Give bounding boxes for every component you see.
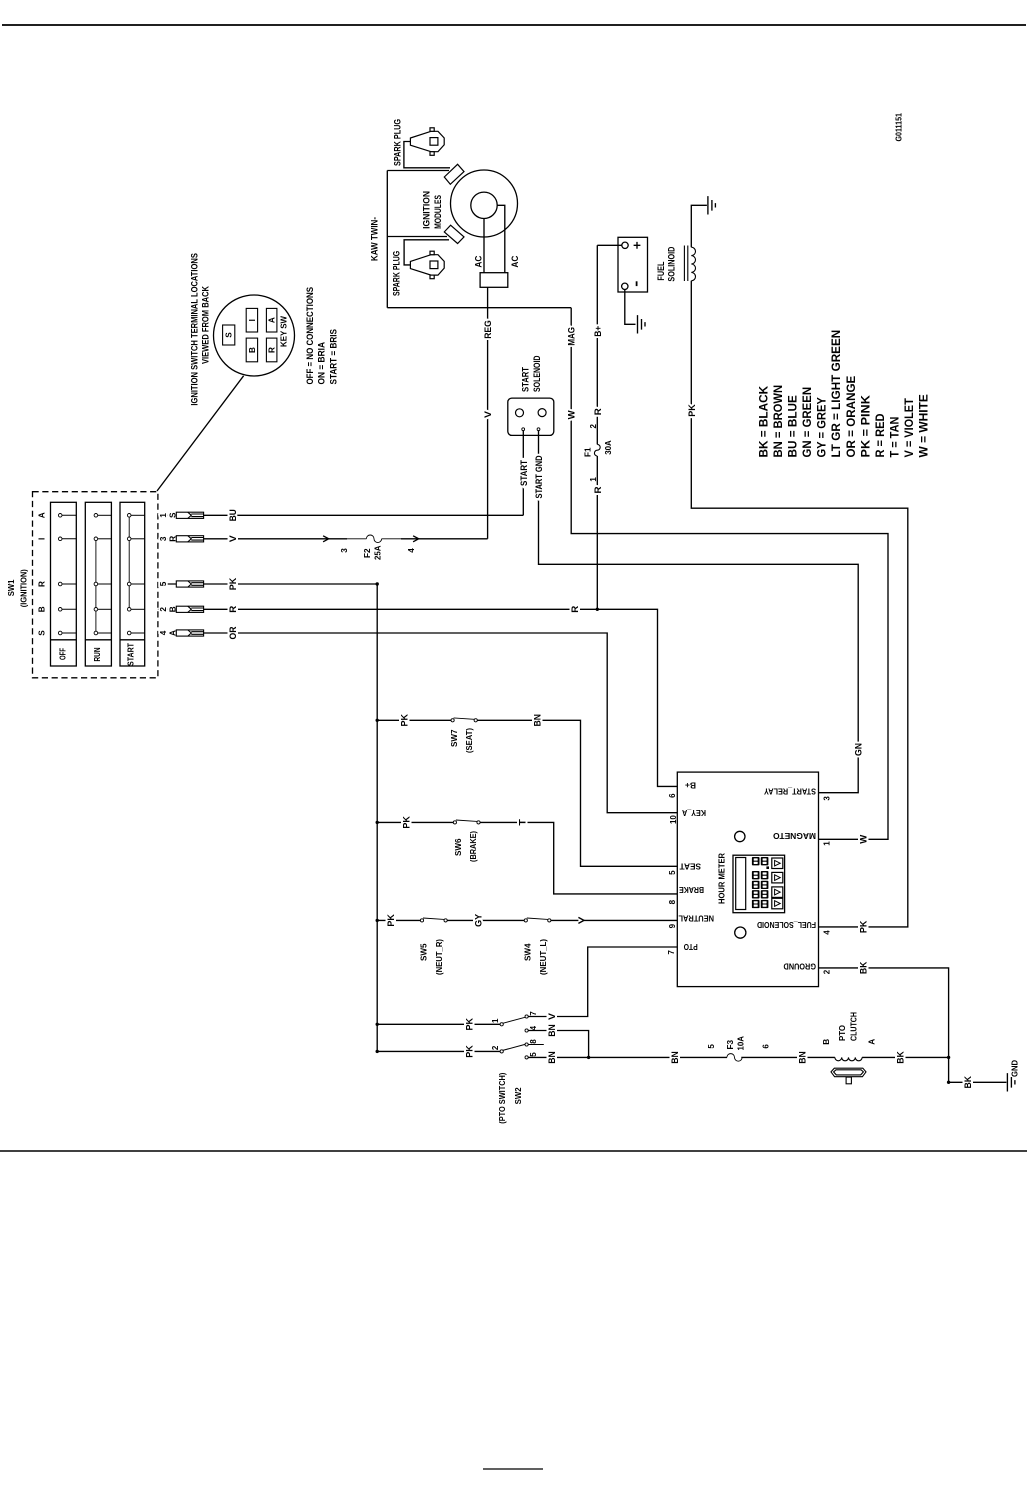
wire GY between neutral switches: [447, 919, 524, 921]
svg-text:(NEUT_L): (NEUT_L): [539, 939, 548, 975]
wire R key B to junction and module B+ pin 6: [158, 609, 677, 786]
spade connector row y=515.3: [176, 512, 203, 518]
svg-text:AC: AC: [474, 255, 484, 267]
fuel solenoid core lines: [684, 246, 687, 282]
switch SW4 NEUT_L: [524, 919, 527, 922]
svg-text:8: 8: [529, 1039, 538, 1044]
flywheel inner circle: [471, 192, 497, 218]
svg-text:PTO: PTO: [683, 942, 698, 951]
svg-text:S: S: [38, 630, 47, 636]
svg-text:V: V: [483, 410, 493, 418]
wire T brake switch to module BRAKE pin 8: [480, 822, 677, 894]
svg-text:PK: PK: [687, 404, 697, 417]
wire BK module GROUND pin 2 to chassis ground: [819, 968, 1007, 1082]
spade connector row y=609.3: [176, 606, 203, 612]
svg-text:1: 1: [159, 513, 168, 518]
svg-text:IGNITION: IGNITION: [422, 191, 432, 229]
spark plug 2 wire: [404, 240, 449, 265]
SW2 pin5 contact: [525, 1056, 528, 1059]
SW1 contact circles column x=129.2: [127, 514, 131, 518]
svg-text:BRAKE: BRAKE: [679, 885, 704, 894]
SW1 RUN position connection bar: [95, 539, 97, 633]
SW1 dashed boundary box: [33, 492, 158, 678]
chassis ground symbol: [1007, 1073, 1015, 1091]
wire BN seat switch to module SEAT pin 5: [477, 720, 677, 866]
key switch terminal I box: [246, 308, 257, 332]
svg-text:R: R: [593, 486, 603, 493]
fuel solenoid coil arcs: [691, 247, 695, 281]
wire MAG W from engine to module pin 1 (magneto): [571, 308, 888, 840]
start solenoid terminal START: [522, 428, 525, 431]
svg-text:PK: PK: [464, 1018, 474, 1031]
svg-text:4: 4: [529, 1025, 538, 1030]
svg-text:PK: PK: [858, 920, 868, 933]
wire START GND green to module pin 3: [539, 431, 859, 793]
svg-text:SW7: SW7: [450, 729, 459, 747]
switch SW6 BRAKE: [453, 821, 456, 824]
junction dot PTO row 2 (bus end): [376, 1050, 379, 1053]
svg-text:R: R: [593, 408, 603, 415]
key switch pointer line: [157, 376, 244, 491]
SW1 contact circles column x=60.2: [58, 514, 62, 518]
svg-text:(PTO SWITCH): (PTO SWITCH): [498, 1072, 507, 1123]
svg-text:W: W: [858, 834, 868, 843]
svg-text:ON = BRIA: ON = BRIA: [317, 342, 327, 385]
control module box: [677, 772, 818, 987]
svg-text:(SEAT): (SEAT): [465, 728, 474, 753]
svg-text:10: 10: [669, 815, 678, 824]
wire BN SW2 pin5 to PTO clutch and ground node (gaps at F3 and clutch coil): [528, 1056, 727, 1058]
engine block top edge wire to ignition module 1: [387, 170, 449, 172]
svg-text:BN: BN: [670, 1051, 680, 1064]
engine block bottom edge: [387, 307, 571, 309]
wire BN SW2 pin4 to BN node: [528, 1031, 588, 1058]
wire START terminal to BU row: [522, 431, 524, 516]
svg-text:BK: BK: [963, 1076, 973, 1089]
svg-text:SOLENOID: SOLENOID: [532, 356, 542, 393]
wire BU key S to start solenoid START: [158, 514, 523, 516]
svg-text:VIEWED FROM BACK: VIEWED FROM BACK: [201, 286, 211, 364]
hour meter digits: [752, 857, 768, 908]
wire R from battery down to junction (gap at fuse F1): [596, 245, 598, 444]
svg-text:2: 2: [822, 969, 831, 974]
svg-text:CLUTCH: CLUTCH: [849, 1012, 858, 1041]
svg-text:HOUR METER: HOUR METER: [717, 852, 727, 904]
svg-text:(BRAKE): (BRAKE): [469, 831, 478, 862]
svg-text:G011151: G011151: [895, 113, 904, 142]
svg-text:3: 3: [159, 536, 168, 541]
svg-text:PK = PINK: PK = PINK: [860, 394, 872, 457]
svg-text:KEY_A: KEY_A: [682, 808, 706, 817]
svg-text:T = TAN: T = TAN: [890, 417, 902, 458]
svg-text:PK: PK: [464, 1045, 474, 1058]
battery ground symbol: [638, 315, 646, 333]
regulator rectifier box: [480, 273, 508, 288]
wire PK to SW2 pin 1: [377, 1023, 500, 1025]
svg-text:PK: PK: [386, 914, 396, 927]
svg-text:SW1: SW1: [7, 579, 16, 596]
SW1 RUN column divider: [85, 639, 111, 641]
ignition module connector 2 (rotated rect): [444, 225, 464, 243]
svg-text:OR: OR: [228, 626, 238, 639]
junction dot BK/BN node: [947, 1056, 950, 1059]
svg-text:MAG: MAG: [567, 327, 577, 346]
svg-text:KAW TWIN-: KAW TWIN-: [370, 217, 380, 261]
svg-text:START: START: [126, 642, 136, 666]
svg-text:BU = BLUE: BU = BLUE: [788, 395, 800, 458]
wire fuel solenoid to ground: [691, 205, 707, 247]
svg-text:2: 2: [491, 1045, 500, 1050]
SW1 RUN column box: [85, 502, 111, 666]
SW1 START column divider: [120, 639, 145, 641]
ignition module connector 1 (rotated rect): [444, 164, 464, 184]
hour meter buttons: [772, 858, 783, 909]
svg-text:10A: 10A: [736, 1036, 745, 1051]
svg-text:F1: F1: [584, 447, 593, 457]
battery box: [618, 237, 648, 292]
PTO clutch rotor symbol: [831, 1068, 866, 1084]
svg-text:S: S: [225, 332, 234, 338]
svg-text:NEUTRAL: NEUTRAL: [679, 914, 715, 923]
svg-text:4: 4: [822, 930, 831, 935]
svg-text:BN: BN: [547, 1051, 557, 1064]
svg-text:V = VIOLET: V = VIOLET: [904, 398, 916, 457]
svg-text:I: I: [38, 538, 47, 540]
svg-text:4: 4: [407, 548, 416, 553]
junction dot brake row: [376, 821, 379, 824]
svg-text:F2: F2: [363, 548, 372, 558]
page footer rule: [0, 1150, 1027, 1152]
wire battery minus to ground: [625, 290, 636, 325]
svg-text:GY: GY: [473, 914, 483, 927]
AC wire left: [483, 219, 485, 273]
svg-text:2: 2: [589, 424, 598, 429]
svg-text:LT GR = LIGHT GREEN: LT GR = LIGHT GREEN: [831, 330, 843, 458]
svg-text:SOLINOID: SOLINOID: [666, 247, 676, 282]
spade connector row y=584.0: [176, 581, 203, 587]
SW1 START column box: [120, 502, 145, 666]
switch SW5 NEUT_R: [420, 919, 423, 922]
spark plug 2 symbol: [410, 251, 444, 279]
svg-text:A: A: [868, 1039, 877, 1045]
flywheel outer circle: [451, 170, 518, 237]
svg-text:PTO: PTO: [838, 1024, 847, 1041]
battery minus terminal circle: [622, 283, 628, 289]
svg-text:25A: 25A: [373, 545, 382, 560]
key switch terminal R box: [266, 338, 277, 362]
junction dot PK bus top: [376, 582, 379, 585]
svg-text:T: T: [517, 819, 527, 826]
spark plug 1 wire: [404, 142, 450, 168]
svg-text:REG: REG: [483, 320, 493, 339]
module LED circle upper: [735, 831, 745, 841]
svg-text:6: 6: [668, 793, 677, 798]
svg-text:BK: BK: [858, 961, 868, 974]
SW1 contact circles column x=95.9: [94, 514, 98, 518]
wire V SW2 pin7 to module PTO pin 7: [528, 947, 677, 1017]
SW2 pole2 blade: [503, 1044, 525, 1050]
svg-text:AC: AC: [510, 255, 520, 267]
switch SW7 SEAT: [451, 719, 454, 722]
start solenoid body: [508, 398, 554, 435]
svg-text:START = BRIS: START = BRIS: [329, 329, 339, 385]
svg-text:BU: BU: [228, 509, 238, 521]
svg-text:BK = BLACK: BK = BLACK: [759, 385, 771, 457]
wire PK fuel solenoid down/right/down to module pin 4: [691, 281, 908, 927]
svg-text:BN = BROWN: BN = BROWN: [773, 385, 785, 458]
svg-text:BN: BN: [547, 1024, 557, 1037]
wire PK to neutral switches: [377, 919, 420, 921]
svg-text:OFF = NO CONNECTIONS: OFF = NO CONNECTIONS: [305, 287, 315, 385]
svg-text:BK: BK: [895, 1051, 905, 1064]
footer short rule: [483, 1468, 543, 1470]
svg-text:BN: BN: [797, 1051, 807, 1064]
svg-text:2: 2: [159, 607, 168, 612]
wire PK to brake switch: [377, 821, 453, 823]
fuse F3 element: [727, 1054, 742, 1062]
svg-text:START: START: [521, 366, 531, 392]
svg-text:SW6: SW6: [454, 838, 463, 856]
svg-text:V: V: [547, 1012, 557, 1020]
key switch terminal S box: [223, 325, 235, 345]
junction dot neutral row: [376, 919, 379, 922]
svg-text:W: W: [567, 410, 577, 419]
svg-text:7: 7: [529, 1011, 538, 1016]
svg-text:8: 8: [668, 899, 677, 904]
svg-text:GROUND: GROUND: [783, 962, 816, 971]
start solenoid post circle right: [538, 409, 546, 417]
key switch terminal B box: [246, 338, 257, 362]
svg-text:I: I: [248, 319, 257, 321]
SW1 OFF column box: [51, 502, 77, 666]
PTO clutch coil: [835, 1057, 862, 1060]
SW2 pin2 contact: [500, 1050, 503, 1053]
svg-text:5: 5: [707, 1044, 716, 1049]
svg-text:7: 7: [667, 950, 676, 955]
svg-text:5: 5: [529, 1052, 538, 1057]
svg-text:FUEL_SOLENOID: FUEL_SOLENOID: [757, 920, 816, 929]
battery plus terminal circle: [622, 242, 628, 248]
engine block outline left edge: [386, 171, 388, 308]
svg-text:6: 6: [762, 1044, 771, 1049]
svg-text:SEAT: SEAT: [680, 862, 702, 871]
svg-text:PK: PK: [401, 816, 411, 829]
svg-text:SW4: SW4: [524, 943, 533, 961]
svg-text:SW2: SW2: [514, 1087, 523, 1104]
svg-text:1: 1: [491, 1018, 500, 1023]
svg-text:R: R: [267, 347, 276, 353]
svg-text:3: 3: [822, 796, 831, 801]
svg-text:B+: B+: [593, 326, 603, 337]
svg-text:R: R: [228, 605, 238, 612]
svg-text:B: B: [822, 1039, 831, 1045]
SW2 pin7 contact: [525, 1015, 528, 1018]
svg-text:KEY SW: KEY SW: [279, 315, 289, 347]
junction dot BN node: [587, 1056, 590, 1059]
svg-text:SPARK PLUG: SPARK PLUG: [393, 119, 403, 166]
battery minus sign: [636, 281, 638, 286]
svg-text:START: START: [519, 460, 529, 486]
svg-text:1: 1: [589, 477, 598, 482]
svg-text:SPARK PLUG: SPARK PLUG: [392, 251, 402, 296]
wire PK to SW2 pin 2: [377, 1050, 500, 1052]
svg-text:3: 3: [340, 548, 349, 553]
wire Y neutral to module NEUTRAL pin 9 with chevron: [551, 919, 579, 921]
junction dot seat row: [376, 719, 379, 722]
fuse F2 chevron right: [413, 536, 419, 542]
spark plug 1 symbol: [410, 128, 444, 156]
svg-text:MODULES: MODULES: [433, 195, 443, 229]
hour meter decimal dot: [766, 866, 769, 869]
SW1 OFF column divider: [51, 639, 77, 641]
svg-text:V: V: [228, 534, 238, 542]
svg-text:4: 4: [159, 630, 168, 635]
svg-text:30A: 30A: [604, 440, 613, 455]
wire V key R to REG (with connector and fuse F2): [158, 538, 488, 540]
svg-text:OR = ORANGE: OR = ORANGE: [846, 375, 858, 457]
svg-text:FUEL: FUEL: [656, 261, 666, 281]
hour meter display outer box: [733, 855, 785, 913]
battery plus sign: [634, 242, 641, 249]
svg-text:START GND: START GND: [534, 455, 544, 498]
fuse F1 symbol: [594, 444, 600, 456]
fuse F2 chevron left: [323, 536, 329, 542]
SW1 START position connection bar: [128, 515, 130, 609]
module LED circle lower: [735, 927, 746, 938]
SW2 pin8 contact: [525, 1043, 528, 1046]
svg-text:PK: PK: [399, 714, 409, 727]
svg-text:1: 1: [822, 841, 831, 846]
svg-text:A: A: [38, 512, 47, 518]
svg-text:5: 5: [159, 581, 168, 586]
spade connector row y=633.0: [176, 630, 203, 636]
svg-text:(NEUT_R): (NEUT_R): [435, 939, 444, 975]
key switch terminal A box: [266, 308, 277, 332]
engine block mid edge wire to ignition module 2: [387, 236, 447, 238]
SW1 contact stubs column x=129.2: [129, 514, 145, 516]
SW2 pin8 stub: [528, 1044, 544, 1046]
svg-text:5: 5: [668, 870, 677, 875]
SW2 pin4 contact: [525, 1029, 528, 1032]
hour meter display window: [736, 858, 746, 910]
PK bus vertical wire: [376, 584, 378, 1051]
svg-text:BN: BN: [532, 714, 542, 727]
svg-text:RUN: RUN: [92, 648, 102, 662]
svg-text:W = WHITE: W = WHITE: [919, 394, 931, 458]
svg-text:R: R: [570, 605, 580, 612]
svg-text:GND: GND: [1010, 1060, 1019, 1077]
svg-text:B: B: [248, 347, 257, 353]
svg-text:OFF: OFF: [58, 648, 68, 660]
svg-text:R = RED: R = RED: [875, 414, 887, 458]
svg-text:PK: PK: [228, 577, 238, 590]
svg-text:9: 9: [668, 923, 677, 928]
svg-text:A: A: [267, 317, 276, 323]
start solenoid terminal START GND: [537, 428, 540, 431]
svg-text:B+: B+: [685, 781, 696, 790]
SW2 pin1 contact: [500, 1023, 503, 1026]
svg-text:(IGNITION): (IGNITION): [20, 569, 29, 607]
wire OR key A to module KEY_A pin 10: [158, 633, 677, 813]
wire REG output (V) vertical: [487, 287, 489, 539]
svg-text:SW5: SW5: [420, 943, 429, 961]
svg-text:R: R: [38, 581, 47, 587]
svg-text:F3: F3: [726, 1040, 735, 1050]
SW2 pole1 blade: [503, 1017, 525, 1023]
junction dot R node: [596, 608, 599, 611]
SW1 contact stubs column x=95.9: [96, 514, 112, 516]
spade connector row y=538.8: [176, 536, 203, 542]
AC wire right: [497, 205, 505, 272]
SW1 contact stubs column x=60.2: [60, 514, 76, 516]
svg-text:IGNITION SWITCH TERMINAL LOCAT: IGNITION SWITCH TERMINAL LOCATIONS: [190, 253, 200, 406]
fuse F2 element: [347, 538, 366, 540]
wire PK key terminal 5 to PK bus: [158, 583, 377, 585]
svg-text:START_RELAY: START_RELAY: [764, 786, 816, 795]
page header rule: [2, 24, 1026, 26]
svg-text:GN = GREEN: GN = GREEN: [802, 387, 814, 458]
junction dot BK corner: [947, 1081, 950, 1084]
wire battery plus to R node: [597, 244, 622, 246]
svg-text:GN: GN: [854, 743, 864, 756]
svg-text:B: B: [38, 606, 47, 612]
svg-text:GY = GREY: GY = GREY: [817, 397, 829, 458]
junction dot PTO row 1: [376, 1023, 379, 1026]
svg-text:MAGNETO: MAGNETO: [772, 831, 816, 840]
start solenoid post circle left: [516, 409, 524, 417]
fuel solenoid ground symbol: [708, 196, 716, 214]
wire PK to seat switch: [377, 719, 451, 721]
key switch detail circle: [214, 295, 295, 376]
